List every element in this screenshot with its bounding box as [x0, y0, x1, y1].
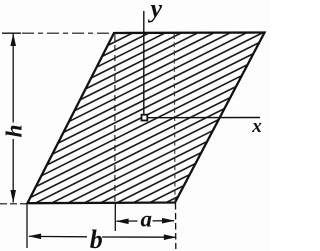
svg-text:y: y [148, 0, 163, 23]
extension line below bottom-left corner [26, 205, 28, 249]
h top arrowhead [10, 33, 16, 46]
dashed vertical line below top-left corner (x = b - a guide) [114, 35, 116, 202]
a dimension right arrowhead [162, 218, 175, 224]
solid extension of that line below base [114, 204, 116, 231]
svg-text:a: a [141, 206, 153, 231]
dashed vertical line through bottom-right corner [173, 34, 176, 202]
h dimension line [12, 33, 14, 122]
x axis [148, 117, 260, 119]
top extension bar [2, 32, 21, 34]
svg-text:x: x [251, 116, 262, 137]
a dimension line right segment [153, 220, 175, 222]
h dimension line lower part [12, 139, 14, 203]
dashed extension below bottom-right corner [175, 203, 177, 249]
parallelogram outline [27, 33, 264, 204]
y axis [143, 11, 145, 115]
b dimension left arrowhead [28, 234, 41, 240]
b dimension right arrowhead [164, 234, 177, 240]
b dimension line right segment [102, 236, 176, 238]
h bottom arrowhead [10, 190, 16, 203]
centroid marker (small open square) [142, 115, 148, 121]
a dimension left arrowhead [116, 219, 129, 225]
a dimension line left segment [117, 220, 138, 222]
b dimension line left segment [29, 235, 87, 237]
dash-dot line from h line to top-left corner [22, 32, 113, 34]
svg-text:h: h [1, 124, 27, 137]
dashed line from left edge to bottom-left corner [0, 203, 27, 205]
svg-text:b: b [90, 225, 103, 251]
